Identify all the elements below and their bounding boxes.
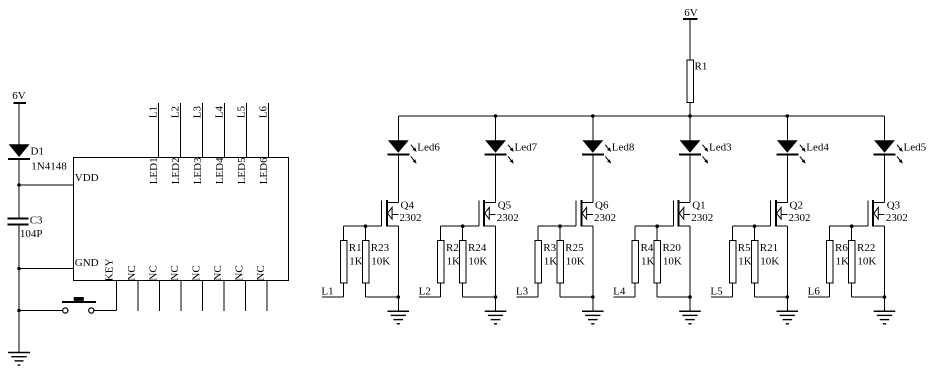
net label L6	[808, 286, 821, 298]
svg-text:L6: L6	[257, 105, 269, 118]
wire Led4 to Q2 drain	[786, 156, 788, 203]
pin LED4 stub	[224, 103, 226, 158]
pin LED6 label	[258, 157, 270, 184]
svg-text:1K: 1K	[447, 256, 461, 268]
pin NC label 4	[191, 265, 203, 280]
wire L4 to R4	[614, 283, 636, 297]
wire rail to Led5	[884, 116, 886, 141]
svg-text:10K: 10K	[663, 256, 682, 268]
pin GND label	[75, 257, 99, 269]
wire Q2 source down	[786, 226, 788, 311]
wire L6 to R6	[808, 283, 830, 297]
pin NC label 7	[255, 265, 267, 280]
wire gate of Q3 to R6/R22	[830, 226, 868, 240]
svg-text:Led3: Led3	[709, 142, 732, 154]
pin LED5 stub	[246, 103, 248, 158]
svg-text:NC: NC	[212, 265, 224, 280]
node gate junction R20	[655, 224, 659, 228]
op-amp/IC U1 body	[74, 158, 289, 281]
pin NC stub 7	[266, 281, 268, 312]
resistor R1	[687, 60, 708, 103]
pin NC label 6	[234, 265, 246, 280]
svg-text:NC: NC	[126, 265, 138, 280]
node GND junction	[17, 267, 21, 271]
transistor Q1 2302	[673, 200, 713, 227]
wire gate of Q2 to R5/R21	[733, 226, 771, 240]
transistor Q6 2302	[576, 200, 616, 227]
pin LED2 label	[170, 157, 182, 184]
pin LED1 stub	[158, 103, 160, 158]
wire to button left terminal	[19, 310, 63, 312]
svg-text:R1: R1	[695, 60, 708, 72]
wire rail to Led6	[397, 116, 399, 141]
net label L1	[147, 106, 159, 118]
wire Led7 to Q5 drain	[495, 156, 497, 203]
wire R22 top	[851, 226, 853, 240]
node source/ground junction	[397, 295, 401, 299]
svg-text:Q1: Q1	[692, 200, 705, 212]
diode D1 1N4148	[8, 144, 67, 172]
svg-text:R4: R4	[641, 242, 654, 254]
svg-text:R6: R6	[835, 242, 848, 254]
LED Led8	[582, 140, 635, 163]
svg-text:C3: C3	[30, 214, 43, 226]
wire Q3 source down	[884, 226, 886, 311]
svg-text:GND: GND	[75, 257, 99, 269]
node gate junction R25	[558, 224, 562, 228]
wire gate of Q1 to R4/R20	[635, 226, 673, 240]
svg-text:1K: 1K	[641, 256, 655, 268]
svg-text:D1: D1	[31, 145, 44, 157]
svg-text:R3: R3	[543, 242, 556, 254]
LED Led5	[874, 140, 927, 163]
svg-text:2302: 2302	[789, 212, 811, 224]
node source/ground junction	[494, 295, 498, 299]
net label L3	[516, 286, 529, 298]
net label L5	[710, 286, 723, 298]
svg-text:VDD: VDD	[75, 172, 99, 184]
resistor R20 10K	[654, 240, 682, 283]
wire VDD	[19, 184, 74, 186]
wire L5 to R5	[711, 283, 733, 297]
wire Led3 to Q1 drain	[689, 156, 691, 203]
svg-text:L1: L1	[321, 286, 333, 298]
svg-text:10K: 10K	[566, 256, 585, 268]
svg-text:L6: L6	[808, 286, 821, 298]
svg-text:Q2: Q2	[790, 200, 803, 212]
svg-text:LED2: LED2	[170, 157, 182, 184]
net label L4	[213, 105, 225, 118]
resistor R1 1K	[340, 240, 363, 283]
pin LED3 stub	[202, 103, 204, 158]
svg-text:R23: R23	[371, 242, 390, 254]
LED Led6	[387, 140, 440, 163]
net label L5	[235, 105, 247, 118]
svg-text:NC: NC	[148, 265, 160, 280]
resistor R2 1K	[438, 240, 461, 283]
node VDD junction	[17, 183, 21, 187]
resistor R24 10K	[460, 240, 488, 283]
svg-text:Led6: Led6	[417, 142, 440, 154]
resistor R25 10K	[557, 240, 585, 283]
svg-text:Q6: Q6	[595, 200, 609, 212]
svg-text:L2: L2	[169, 106, 181, 118]
pin NC label 3	[169, 265, 181, 280]
svg-text:L3: L3	[516, 286, 529, 298]
net label L2	[169, 106, 181, 118]
svg-text:R1: R1	[349, 242, 362, 254]
ground left	[8, 353, 30, 366]
LED Led7	[485, 140, 538, 163]
transistor Q5 2302	[479, 200, 519, 227]
node source/ground junction	[688, 295, 692, 299]
LED Led4	[776, 140, 829, 163]
node rail junction L4	[688, 114, 692, 118]
wire C3 to ground rail	[18, 226, 20, 353]
transistor Q2 2302	[771, 200, 811, 227]
svg-text:1K: 1K	[836, 256, 850, 268]
svg-text:2302: 2302	[886, 212, 908, 224]
wire Q6 source down	[592, 226, 594, 311]
capacitor C3 104P	[8, 214, 44, 240]
wire R1 to rail	[689, 103, 691, 117]
svg-text:Led7: Led7	[515, 142, 538, 154]
node button junction	[17, 309, 21, 313]
svg-text:R24: R24	[468, 242, 487, 254]
LED Led3	[679, 140, 732, 163]
svg-text:Q4: Q4	[401, 200, 415, 212]
resistor R23 10K	[362, 240, 390, 283]
ground column 5	[777, 311, 799, 324]
svg-text:LED6: LED6	[258, 157, 270, 184]
svg-text:10K: 10K	[468, 256, 487, 268]
svg-text:1K: 1K	[544, 256, 558, 268]
wire Q5 source down	[495, 226, 497, 311]
svg-text:R22: R22	[857, 242, 875, 254]
pin LED3 label	[192, 157, 204, 184]
svg-text:R25: R25	[565, 242, 584, 254]
svg-text:R20: R20	[663, 242, 682, 254]
transistor Q4 2302	[382, 200, 422, 227]
wire R20 top	[656, 226, 658, 240]
wire rail to Led4	[786, 116, 788, 141]
wire R25 bottom to source	[560, 283, 593, 297]
svg-text:LED5: LED5	[236, 157, 248, 184]
svg-text:Q3: Q3	[887, 200, 901, 212]
svg-text:L4: L4	[213, 105, 225, 118]
svg-text:LED4: LED4	[214, 157, 226, 184]
pin NC stub 6	[245, 281, 247, 312]
pin NC label 2	[148, 265, 160, 280]
wire rail to Led8	[592, 116, 594, 141]
wire L1 to R1	[322, 283, 344, 297]
pin NC label 5	[212, 265, 224, 280]
svg-text:1N4148: 1N4148	[31, 161, 67, 173]
svg-text:10K: 10K	[371, 256, 390, 268]
node gate junction R24	[461, 224, 465, 228]
wire GND	[19, 268, 74, 270]
node gate junction R23	[364, 224, 368, 228]
svg-text:2302: 2302	[400, 212, 422, 224]
node gate junction R22	[850, 224, 854, 228]
wire Led8 to Q6 drain	[592, 156, 594, 203]
svg-text:L1: L1	[147, 106, 159, 118]
wire gate of Q5 to R2/R24	[441, 226, 479, 240]
pin NC stub 1	[137, 281, 139, 312]
svg-text:L5: L5	[710, 286, 723, 298]
ground column 2	[485, 311, 507, 324]
node rail junction L3	[591, 114, 595, 118]
node source/ground junction	[591, 295, 595, 299]
svg-text:Q5: Q5	[498, 200, 512, 212]
wire R25 top	[559, 226, 561, 240]
net label L3	[191, 105, 203, 118]
wire supply rail	[398, 115, 884, 117]
wire gate of Q4 to R1/R23	[344, 226, 382, 240]
pin LED2 stub	[180, 103, 182, 158]
svg-text:LED1: LED1	[148, 157, 160, 184]
pin LED1 label	[148, 157, 160, 184]
wire 6V to R1	[689, 20, 691, 60]
resistor R3 1K	[535, 240, 558, 283]
wire rail to Led7	[495, 116, 497, 141]
wire diode to C3	[18, 160, 20, 219]
ground column 3	[582, 311, 604, 324]
node rail junction L2	[494, 114, 498, 118]
svg-text:6V: 6V	[12, 90, 25, 102]
wire R24 top	[462, 226, 464, 240]
svg-text:L4: L4	[613, 286, 626, 298]
wire button to KEY pin	[94, 281, 117, 311]
svg-text:10K: 10K	[760, 256, 779, 268]
svg-text:KEY: KEY	[103, 259, 115, 282]
wire gate of Q6 to R3/R25	[538, 226, 576, 240]
svg-text:10K: 10K	[857, 256, 876, 268]
transistor Q3 2302	[868, 200, 908, 227]
svg-text:104P: 104P	[20, 228, 43, 240]
svg-text:LED3: LED3	[192, 157, 204, 184]
pin NC label 1	[126, 265, 138, 280]
wire R22 bottom to source	[852, 283, 885, 297]
svg-text:R21: R21	[760, 242, 778, 254]
wire R20 bottom to source	[657, 283, 690, 297]
svg-text:NC: NC	[169, 265, 181, 280]
resistor R5 1K	[729, 240, 752, 283]
resistor R6 1K	[827, 240, 850, 283]
net label L1	[321, 286, 333, 298]
net label L2	[419, 286, 431, 298]
svg-text:NC: NC	[234, 265, 246, 280]
resistor R4 1K	[632, 240, 655, 283]
svg-text:2302: 2302	[691, 212, 713, 224]
pin NC stub 4	[202, 281, 204, 312]
pin LED6 stub	[268, 103, 270, 158]
svg-text:L2: L2	[419, 286, 431, 298]
node source/ground junction	[786, 295, 790, 299]
wire L3 to R3	[517, 283, 539, 297]
resistor R22 10K	[849, 240, 877, 283]
pin NC stub 3	[180, 281, 182, 312]
svg-text:NC: NC	[255, 265, 267, 280]
wire 6V to diode	[18, 103, 20, 145]
wire R21 top	[754, 226, 756, 240]
wire L2 to R2	[419, 283, 441, 297]
ground column 6	[874, 311, 896, 324]
pin LED5 label	[236, 157, 248, 184]
wire R23 top	[365, 226, 367, 240]
wire R24 bottom to source	[463, 283, 496, 297]
svg-text:Led5: Led5	[904, 142, 927, 154]
wire R23 bottom to source	[366, 283, 399, 297]
svg-text:1K: 1K	[738, 256, 752, 268]
svg-text:6V: 6V	[684, 7, 698, 19]
ground column 4	[679, 311, 701, 324]
power 6V left	[12, 90, 25, 103]
wire Q1 source down	[689, 226, 691, 311]
resistor R21 10K	[751, 240, 779, 283]
svg-text:2302: 2302	[497, 212, 519, 224]
svg-text:R2: R2	[446, 242, 459, 254]
push button S1	[62, 297, 96, 313]
pin NC stub 5	[223, 281, 225, 312]
wire rail to Led3	[689, 116, 691, 141]
node rail junction L5	[786, 114, 790, 118]
pin LED4 label	[214, 157, 226, 184]
power 6V right	[683, 7, 698, 19]
svg-text:L5: L5	[235, 105, 247, 118]
wire Led6 to Q4 drain	[397, 156, 399, 203]
svg-text:2302: 2302	[594, 212, 616, 224]
svg-text:Led8: Led8	[612, 142, 635, 154]
ground column 1	[388, 311, 410, 324]
pin KEY label	[103, 259, 115, 282]
svg-text:NC: NC	[191, 265, 203, 280]
wire Led5 to Q3 drain	[884, 156, 886, 203]
node gate junction R21	[753, 224, 757, 228]
svg-text:Led4: Led4	[806, 142, 829, 154]
svg-text:1K: 1K	[349, 256, 363, 268]
svg-text:R5: R5	[738, 242, 751, 254]
pin VDD label	[75, 172, 99, 184]
wire R21 bottom to source	[755, 283, 788, 297]
wire Q4 source down	[397, 226, 399, 311]
node source/ground junction	[883, 295, 887, 299]
pin NC stub 2	[159, 281, 161, 312]
net label L4	[613, 286, 626, 298]
svg-text:L3: L3	[191, 105, 203, 118]
net label L6	[257, 105, 269, 118]
